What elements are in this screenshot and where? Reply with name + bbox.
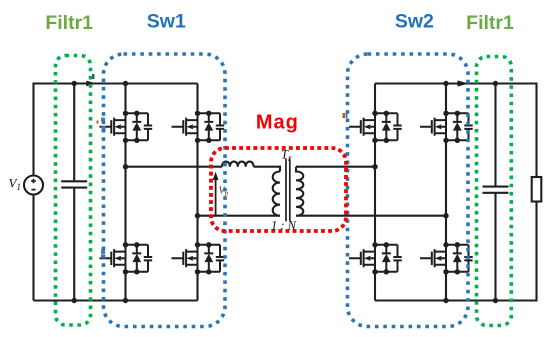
svg-text:Mag: Mag (256, 111, 299, 133)
svg-text:Vp: Vp (219, 186, 229, 198)
svg-text:Sw1: Sw1 (147, 11, 186, 33)
svg-text:Filtr1: Filtr1 (45, 12, 93, 34)
svg-text:V1: V1 (9, 176, 21, 193)
svg-text:1 : N: 1 : N (271, 219, 297, 233)
svg-text:Filtr1: Filtr1 (466, 12, 514, 34)
svg-text:Sw2: Sw2 (395, 11, 434, 33)
